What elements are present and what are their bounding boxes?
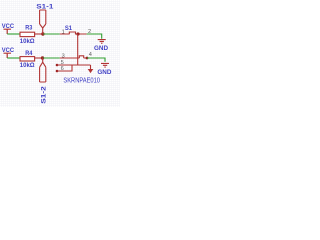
actuator link (vertical) xyxy=(77,34,79,65)
switch S1 bottom pole bridge xyxy=(79,56,83,58)
resistor R3 xyxy=(20,32,35,36)
wire node to S1 pin3 xyxy=(43,57,60,59)
svg-text:3: 3 xyxy=(62,53,65,59)
svg-text:10kΩ: 10kΩ xyxy=(20,62,35,69)
wire VCC to R3 xyxy=(7,33,20,35)
ground symbol (bottom) xyxy=(101,63,109,67)
ground symbol (top) xyxy=(98,40,106,44)
connector S1-2 xyxy=(40,58,46,82)
wire node to S1 pin1 xyxy=(43,33,60,35)
connector S1-1 xyxy=(40,10,46,34)
node junction pin4 xyxy=(86,57,89,60)
wire VCC to R4 xyxy=(7,57,20,59)
switch S1 pin 5 endpoint dot xyxy=(56,64,59,67)
svg-text:4: 4 xyxy=(89,52,92,58)
wire R4 to node (red pin stub) xyxy=(35,57,43,59)
svg-text:GND: GND xyxy=(94,45,108,52)
svg-text:S1-1: S1-1 xyxy=(36,3,53,10)
switch S1 actuator arrowhead xyxy=(88,69,94,73)
svg-text:R3: R3 xyxy=(25,25,32,32)
svg-text:10kΩ: 10kΩ xyxy=(20,38,35,45)
svg-text:S1: S1 xyxy=(65,25,72,32)
node junction on top pole xyxy=(76,32,79,35)
svg-text:1: 1 xyxy=(62,29,65,35)
wire S1 pin4 to GND xyxy=(87,58,105,62)
wire S1 pin2 to GND xyxy=(87,34,102,39)
switch S1 pin 6 lead xyxy=(57,65,72,71)
node junction row2 xyxy=(41,56,44,59)
svg-text:6: 6 xyxy=(61,66,64,72)
svg-text:GND: GND xyxy=(97,69,111,76)
switch S1 bottom pole contacts (pins 3-4) xyxy=(60,57,87,59)
supply VCC symbol (bottom) xyxy=(4,53,12,58)
switch S1 top pole bridge xyxy=(69,32,75,34)
wire R3 to node (red pin stub) xyxy=(35,33,43,35)
switch S1 actuator arrow stem xyxy=(90,65,92,69)
svg-text:S1-2: S1-2 xyxy=(41,86,48,104)
switch S1 pin 5 lead xyxy=(57,64,91,66)
supply VCC symbol (top) xyxy=(4,29,12,34)
switch S1 pin 6 endpoint dot xyxy=(56,70,59,73)
node junction row1 xyxy=(41,32,44,35)
switch S1 top pole contacts (pins 1-2) xyxy=(60,33,87,35)
svg-text:SKRNPAE010: SKRNPAE010 xyxy=(63,76,100,85)
resistor R4 xyxy=(20,57,35,61)
